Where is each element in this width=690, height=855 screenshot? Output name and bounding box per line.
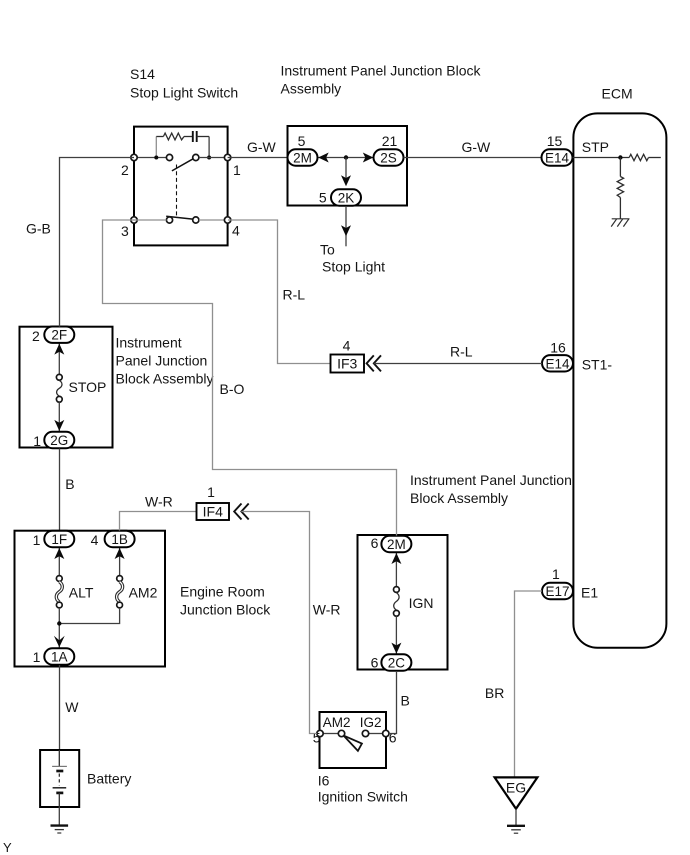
- svg-text:Battery: Battery: [87, 771, 131, 787]
- wire R-L IF3 to ECM: [374, 363, 542, 365]
- wire ALT to 1A: [58, 608, 60, 648]
- ground hatched in ECM: [611, 219, 629, 227]
- capacitor in S14: [192, 131, 194, 142]
- connector 1F: [44, 531, 74, 547]
- svg-text:Junction Block: Junction Block: [180, 602, 271, 618]
- arrow up to 2M ign: [391, 553, 401, 564]
- svg-text:Block Assembly: Block Assembly: [116, 371, 214, 387]
- wire term5 to AM2: [323, 733, 338, 735]
- wire resistor to capacitor: [184, 136, 192, 138]
- svg-text:Panel Junction: Panel Junction: [116, 353, 208, 369]
- svg-text:Instrument: Instrument: [116, 335, 182, 351]
- svg-text:Stop Light: Stop Light: [322, 259, 385, 275]
- svg-text:E14: E14: [545, 151, 570, 166]
- svg-text:1: 1: [207, 484, 215, 500]
- ECM box: [573, 113, 666, 647]
- connector E17: [542, 583, 573, 599]
- wire 1B to AM2 fuse: [119, 548, 121, 576]
- connector 1A: [44, 648, 74, 664]
- svg-text:IG2: IG2: [360, 715, 382, 730]
- arrow down to 2G: [54, 420, 64, 431]
- fuse IGN element: [394, 593, 399, 611]
- arrow up to 1F: [54, 548, 64, 559]
- svg-text:ST1-: ST1-: [582, 357, 613, 373]
- fuse IGN bottom circle: [394, 610, 400, 616]
- wire EG to ground: [515, 809, 517, 825]
- svg-text:IF4: IF4: [203, 504, 223, 520]
- wire 2M to IGN fuse: [395, 553, 397, 587]
- switch S14 box: [134, 127, 228, 246]
- svg-text:Ignition Switch: Ignition Switch: [318, 789, 408, 805]
- svg-text:5: 5: [313, 730, 321, 746]
- svg-text:2: 2: [121, 162, 129, 178]
- connector IF3 box: [331, 355, 365, 373]
- dashed link line: [176, 165, 178, 217]
- battery box: [40, 750, 79, 807]
- fusible link AM2 top circle: [117, 576, 123, 582]
- arrow down to 2C: [391, 643, 401, 654]
- node dot ERJB: [57, 621, 61, 625]
- svg-text:E17: E17: [545, 584, 569, 599]
- node dot left: [154, 156, 158, 160]
- wire B term6 to 2C: [389, 671, 397, 734]
- connector 2G: [44, 432, 74, 448]
- wire 1B up to IF4: [120, 512, 197, 531]
- arrow into 2M: [318, 153, 329, 163]
- svg-text:AM2: AM2: [129, 585, 158, 601]
- svg-text:W: W: [65, 699, 79, 715]
- wire IG2 to term6: [369, 733, 383, 735]
- battery plate long 2: [53, 787, 67, 789]
- wire E17 to EG: [515, 591, 543, 777]
- wire G-W 2S to ECM: [404, 157, 542, 159]
- junction block IPJB top box: [288, 126, 408, 206]
- svg-text:4: 4: [232, 223, 240, 239]
- svg-text:3: 3: [121, 223, 129, 239]
- contact circle lower right: [193, 217, 199, 223]
- svg-text:4: 4: [343, 338, 351, 354]
- svg-text:5: 5: [298, 133, 306, 149]
- wire resistor to rail: [649, 157, 661, 159]
- arrow up to 2F: [54, 344, 64, 355]
- svg-text:2K: 2K: [338, 191, 355, 206]
- svg-text:R-L: R-L: [450, 344, 473, 360]
- svg-text:4: 4: [91, 532, 99, 548]
- wire capacitor lead: [197, 136, 209, 138]
- wire W-R IF4 to ignition switch: [241, 512, 316, 734]
- svg-text:6: 6: [389, 730, 397, 746]
- wire G-W switch to 2M: [228, 157, 288, 159]
- svg-text:STP: STP: [582, 139, 609, 155]
- connector 2K: [331, 189, 361, 205]
- svg-text:BR: BR: [485, 685, 504, 701]
- svg-text:Instrument Panel Junction Bloc: Instrument Panel Junction Block: [281, 63, 482, 79]
- connector 2C: [381, 654, 411, 670]
- svg-text:G-W: G-W: [462, 139, 492, 155]
- svg-text:B: B: [401, 693, 410, 709]
- contact circle lower left: [166, 217, 172, 223]
- arrow into 2S: [363, 153, 374, 163]
- chevrons IF4: [234, 504, 241, 520]
- fusible link ALT top circle: [56, 576, 62, 582]
- terminal 4 circle: [224, 217, 230, 223]
- svg-text:2F: 2F: [51, 328, 67, 343]
- fuse STOP bottom circle: [56, 396, 62, 402]
- resistor vertical in ECM: [617, 177, 623, 198]
- svg-text:W-R: W-R: [145, 494, 173, 510]
- svg-text:Y: Y: [3, 840, 12, 855]
- svg-text:2G: 2G: [50, 433, 68, 448]
- battery dashed link: [58, 774, 60, 786]
- fuse STOP element: [57, 380, 62, 396]
- battery plate short 2: [56, 792, 63, 795]
- svg-text:15: 15: [547, 133, 563, 149]
- node dot STP: [618, 155, 622, 159]
- ground triangle EG: [495, 777, 538, 808]
- wire STP internal: [573, 157, 630, 159]
- wire R-L term4 to IF3: [228, 220, 330, 364]
- svg-text:2C: 2C: [388, 656, 406, 671]
- svg-text:W-R: W-R: [313, 602, 341, 618]
- fusible link ALT bottom circle: [56, 602, 62, 608]
- svg-text:IGN: IGN: [409, 595, 434, 611]
- svg-text:To: To: [320, 242, 335, 258]
- arrow to stop light: [341, 225, 351, 236]
- connector E14 pin15: [542, 149, 573, 165]
- connector 2M: [288, 149, 318, 165]
- wire inside IPJB top row: [318, 157, 374, 159]
- terminal 5 circle: [317, 730, 323, 736]
- svg-text:5: 5: [319, 190, 327, 206]
- terminal 2 circle: [131, 154, 137, 160]
- svg-text:R-L: R-L: [283, 287, 306, 303]
- svg-text:6: 6: [371, 655, 379, 671]
- fusible link ALT element: [56, 582, 62, 602]
- connector 2M ign: [381, 536, 411, 552]
- fusible link AM2 bottom circle: [117, 602, 123, 608]
- svg-text:ALT: ALT: [69, 585, 94, 601]
- wire RC branch lead: [156, 136, 163, 138]
- node dot right: [207, 156, 211, 160]
- wire B-O term3 to IGN 2M: [103, 220, 397, 536]
- svg-text:B-O: B-O: [220, 381, 245, 397]
- connector IF4 box: [197, 503, 230, 520]
- switch arm lower: [166, 216, 193, 219]
- chevrons IF3: [367, 355, 374, 371]
- wire top row left inside: [134, 157, 166, 159]
- svg-text:2M: 2M: [293, 151, 312, 166]
- svg-text:16: 16: [550, 340, 566, 356]
- arrow up to 1B: [115, 548, 125, 559]
- svg-text:21: 21: [382, 133, 398, 149]
- fuse IGN top circle: [394, 587, 400, 593]
- wire top row right inside: [199, 157, 228, 159]
- battery plate short 1: [56, 770, 63, 773]
- svg-text:AM2: AM2: [323, 715, 351, 730]
- wire battery to ground: [58, 807, 60, 825]
- contact circle upper right: [193, 154, 199, 160]
- svg-text:1F: 1F: [51, 532, 67, 547]
- svg-text:ECM: ECM: [602, 86, 633, 102]
- svg-text:E1: E1: [581, 585, 598, 601]
- svg-text:G-W: G-W: [247, 139, 277, 155]
- svg-text:2S: 2S: [380, 151, 397, 166]
- double arrow down to 1A: [54, 636, 65, 647]
- svg-text:6: 6: [371, 535, 379, 551]
- junction block IPJB left box: [20, 327, 113, 448]
- wire 2K down: [345, 206, 347, 246]
- svg-text:IF3: IF3: [337, 356, 357, 372]
- terminal 6 circle: [383, 730, 389, 736]
- svg-text:1A: 1A: [51, 650, 68, 665]
- svg-text:Instrument Panel Junction: Instrument Panel Junction: [410, 472, 572, 488]
- wire fuse to 2C: [395, 616, 397, 654]
- battery plate long 1: [52, 765, 67, 767]
- contact IG2 circle: [362, 730, 368, 736]
- wire resistor to ground: [619, 198, 621, 219]
- terminal 3 circle: [131, 217, 137, 223]
- wire 2F to fuse: [58, 343, 60, 374]
- svg-text:Assembly: Assembly: [281, 81, 342, 97]
- svg-text:1: 1: [33, 649, 41, 665]
- fusible link AM2 element: [117, 582, 123, 602]
- resistor horizontal in ECM: [629, 154, 648, 160]
- connector 1B: [105, 531, 135, 547]
- wire stub RC branch right: [208, 137, 210, 158]
- ground bars EG: [507, 825, 525, 827]
- contact AM2 circle: [338, 730, 344, 736]
- ground bars battery: [51, 824, 69, 826]
- svg-text:1: 1: [33, 433, 41, 449]
- wire STP pulldown: [619, 158, 621, 177]
- svg-text:STOP: STOP: [69, 379, 107, 395]
- svg-text:1: 1: [33, 532, 41, 548]
- svg-text:S14: S14: [130, 66, 155, 82]
- arrow down to 2K: [341, 175, 351, 186]
- wire G-B switch to 2F: [60, 158, 135, 327]
- svg-text:I6: I6: [318, 773, 330, 789]
- wire stub to RC branch left: [155, 137, 157, 158]
- svg-text:G-B: G-B: [26, 221, 51, 237]
- battery internal lead: [58, 750, 60, 766]
- svg-text:E14: E14: [545, 356, 570, 371]
- ignition switch box: [320, 712, 387, 768]
- wire 1F to ALT fuse: [58, 548, 60, 576]
- contact circle upper left: [166, 154, 172, 160]
- resistor in S14: [163, 133, 184, 140]
- battery bottom lead: [58, 793, 60, 807]
- ignition lever: [344, 736, 362, 751]
- connector E14 pin16: [542, 355, 573, 371]
- svg-text:EG: EG: [506, 780, 526, 796]
- junction block IGN box: [358, 535, 448, 670]
- wire 1A to battery: [59, 665, 61, 750]
- svg-text:Engine Room: Engine Room: [180, 584, 265, 600]
- node dot IPJB: [344, 155, 348, 159]
- svg-text:2M: 2M: [387, 537, 406, 552]
- junction block ERJB box: [15, 531, 166, 667]
- svg-text:1B: 1B: [111, 532, 128, 547]
- wire dot down to 2K: [345, 158, 347, 180]
- wire AM2 to node: [59, 608, 119, 624]
- svg-text:B: B: [65, 476, 74, 492]
- svg-text:1: 1: [552, 566, 560, 582]
- svg-text:2: 2: [32, 328, 40, 344]
- connector 2S: [374, 149, 404, 165]
- wire B 2G to 1F: [59, 449, 61, 531]
- fuse STOP top circle: [56, 374, 62, 380]
- terminal 1 circle: [224, 154, 230, 160]
- switch arm upper: [172, 158, 194, 171]
- svg-text:1: 1: [233, 162, 241, 178]
- svg-text:Block Assembly: Block Assembly: [410, 490, 508, 506]
- wire fuse to 2G: [58, 402, 60, 431]
- wire bottom row inside: [199, 219, 228, 221]
- svg-text:Stop Light Switch: Stop Light Switch: [130, 85, 238, 101]
- connector 2F: [44, 327, 74, 343]
